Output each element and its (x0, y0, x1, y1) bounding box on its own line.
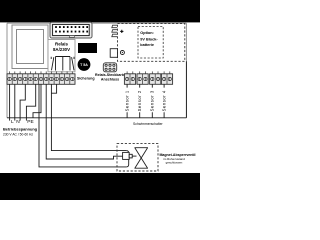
top black bar (0, 0, 200, 22)
svg-text:230 V AC / 50-60 Hz: 230 V AC / 50-60 Hz (3, 133, 33, 137)
svg-text:batterie: batterie (140, 43, 154, 47)
svg-text:PE: PE (27, 119, 33, 125)
svg-text:Sensor 4: Sensor 4 (161, 90, 166, 111)
wire L (9, 84, 11, 120)
svg-text:8A/230V: 8A/230V (53, 47, 70, 52)
battery plus contact plates (112, 25, 118, 37)
battery plus sign (120, 30, 123, 33)
main strip pin ticks (10, 71, 73, 73)
svg-text:Betriebsspannung: Betriebsspannung (3, 127, 38, 132)
svg-text:Sensor 2: Sensor 2 (137, 90, 142, 111)
node bus bottom (7, 117, 186, 119)
solenoid valve body (135, 148, 148, 169)
bottom black bar (0, 173, 200, 200)
wire battery feed right edge (185, 61, 187, 118)
svg-text:Option:: Option: (140, 31, 154, 35)
valve connecting stem (132, 155, 136, 157)
cable end cap (126, 151, 128, 167)
svg-text:Sicherung: Sicherung (77, 76, 95, 80)
sensor block pin ticks (127, 71, 170, 73)
battery option dashed inner text box (138, 26, 163, 58)
pin header socket 2x3 (103, 63, 116, 72)
wire sensor 4 drop (163, 84, 165, 118)
svg-text:Sensor 1: Sensor 1 (124, 90, 129, 111)
svg-text:Anschluss: Anschluss (101, 78, 119, 82)
relay contact blades (51, 57, 74, 71)
battery minus contact box (110, 49, 117, 58)
sensor block screws (126, 77, 172, 80)
fuse T5A circle (78, 58, 91, 71)
valve plug nose (129, 154, 132, 158)
sensor terminal block 1 (124, 74, 135, 85)
battery option dashed outer box (118, 24, 185, 62)
controller enclosure outline (7, 23, 186, 118)
ribbon connector shell (50, 22, 92, 38)
ribbon connector pins row 1 (55, 26, 88, 28)
svg-text:Sensor 3: Sensor 3 (150, 90, 155, 111)
svg-text:geschlossen: geschlossen (166, 160, 183, 164)
relay box (48, 40, 75, 72)
wire N (14, 84, 16, 120)
wire stair valve top (51, 84, 126, 150)
ribbon connector pins row 2 (55, 31, 88, 33)
svg-text:Relais-Steckkarte: Relais-Steckkarte (95, 73, 125, 77)
ribbon connector key notch (69, 36, 74, 38)
main terminal strip (7, 74, 75, 85)
valve plug body (123, 152, 130, 159)
display window outer box (12, 25, 48, 69)
svg-text:T 5A: T 5A (80, 63, 88, 67)
main strip screws (8, 77, 74, 80)
wire bridge terminals 9-10 (51, 84, 56, 93)
battery minus terminal circle (120, 51, 124, 55)
relay contacts (56, 57, 71, 71)
wire jog terminal7 (33, 84, 41, 118)
valve dashed box (117, 144, 158, 171)
sensor terminal block 2 (137, 74, 148, 85)
display window inner box (17, 30, 44, 64)
svg-text:L: L (11, 119, 14, 125)
wire stair valve bottom (39, 84, 126, 167)
wire sensor 3 drop (151, 84, 153, 118)
svg-text:9V Block-: 9V Block- (140, 37, 158, 41)
wire stair valve middle (46, 84, 122, 159)
svg-text:Schwimmerschalter: Schwimmerschalter (133, 122, 163, 126)
black display rectangle (78, 43, 97, 53)
wire sensor 1 drop (126, 84, 128, 118)
wire jog terminal4 to PE column (20, 84, 25, 120)
wire jog terminal6 (26, 84, 35, 120)
svg-text:N: N (16, 119, 20, 125)
sensor terminal block 4 (161, 74, 172, 85)
sensor terminal block 3 (150, 74, 161, 85)
wire sensor 2 drop (139, 84, 141, 118)
ribbon connector body (53, 24, 90, 35)
